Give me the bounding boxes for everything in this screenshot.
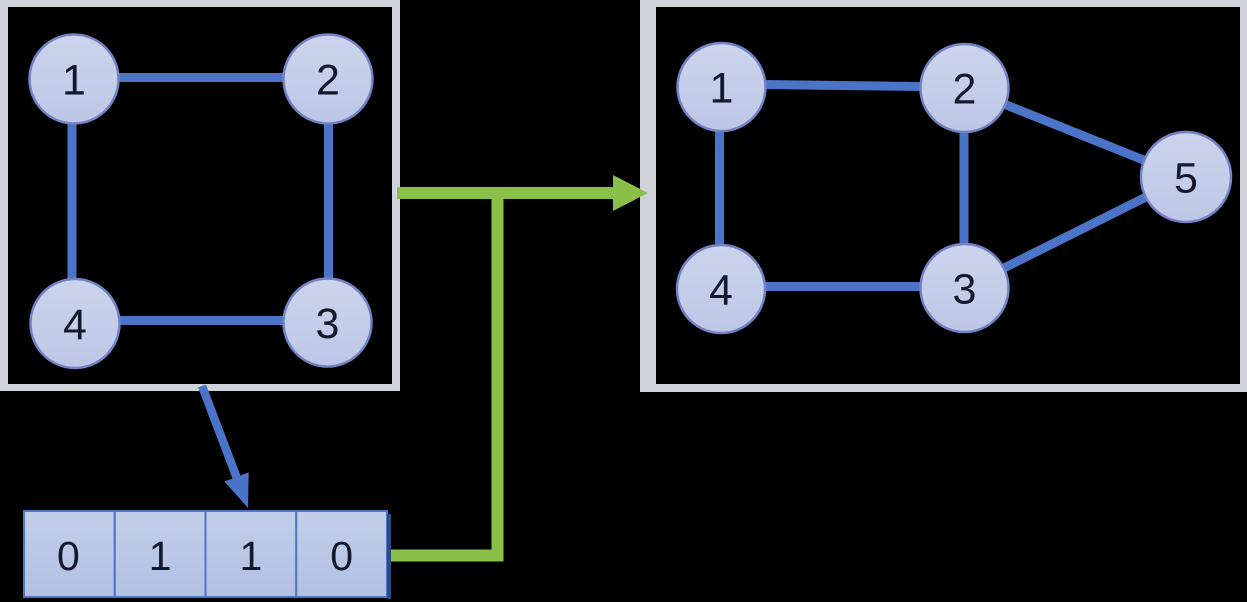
svg-text:0: 0 — [57, 533, 80, 579]
svg-text:3: 3 — [316, 300, 340, 348]
svg-text:2: 2 — [953, 66, 977, 114]
svg-text:1: 1 — [149, 533, 172, 579]
svg-text:5: 5 — [1174, 155, 1198, 203]
svg-text:2: 2 — [316, 57, 340, 105]
svg-text:4: 4 — [709, 267, 733, 315]
svg-text:4: 4 — [63, 301, 87, 349]
svg-text:1: 1 — [62, 57, 86, 105]
svg-text:3: 3 — [953, 266, 977, 314]
svg-text:1: 1 — [710, 65, 734, 113]
svg-text:0: 0 — [330, 533, 353, 579]
svg-text:1: 1 — [239, 533, 262, 579]
